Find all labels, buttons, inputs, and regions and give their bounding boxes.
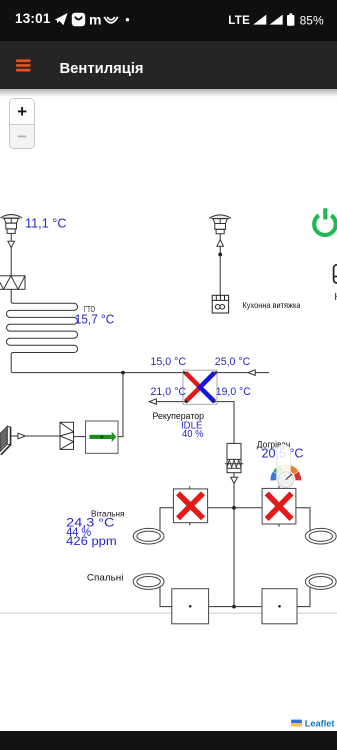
header title bbox=[60, 61, 144, 77]
svg-text:25,0 °C: 25,0 °C bbox=[215, 356, 251, 368]
damper bedroom right (open) bbox=[262, 589, 297, 624]
node row1 bbox=[232, 506, 236, 510]
leaflet attribution bbox=[289, 718, 337, 731]
wire row1 bbox=[208, 507, 263, 509]
bottom nav bar bbox=[0, 731, 337, 750]
svg-text:Leaflet: Leaflet bbox=[305, 719, 335, 729]
damper living-room right (closed) bbox=[262, 486, 296, 527]
status bar bbox=[0, 0, 337, 41]
port arrow top-right bbox=[213, 371, 217, 374]
recuperator U1 bbox=[183, 370, 217, 404]
svg-text:21,0 °C: 21,0 °C bbox=[151, 386, 187, 398]
port arrow top-left bbox=[183, 371, 187, 374]
flow arrow down bbox=[8, 241, 15, 247]
notification dot bbox=[126, 18, 129, 21]
status icons left bbox=[0, 0, 337, 41]
svg-text:15,7 °C: 15,7 °C bbox=[75, 313, 115, 327]
heater (reheat coil) bbox=[225, 443, 243, 472]
svg-text:426 ppm: 426 ppm bbox=[66, 534, 117, 548]
svg-text:15,0 °C: 15,0 °C bbox=[151, 356, 187, 368]
svg-text:Спальні: Спальні bbox=[87, 573, 124, 584]
wire exhaust out left bbox=[149, 401, 183, 403]
diffuser row2 left bbox=[133, 574, 164, 590]
node row2 bbox=[232, 605, 236, 609]
wire recuperator to heater bbox=[217, 402, 234, 444]
gauge arc orange bbox=[289, 465, 298, 474]
node kitchen bbox=[218, 253, 222, 257]
wire junction to fan bbox=[118, 373, 123, 437]
gauge arc red bbox=[294, 472, 301, 481]
wire to diffuser row2 right bbox=[297, 587, 310, 607]
exhaust fan (running) bbox=[86, 421, 119, 453]
flow arrow down (supply) bbox=[231, 477, 238, 483]
filter F1 bbox=[0, 276, 25, 290]
exhaust grille bbox=[0, 426, 11, 455]
wire grille to arrow bbox=[11, 435, 18, 437]
partial icon right edge bbox=[334, 265, 337, 283]
gauge arc yellow bbox=[281, 464, 290, 470]
swoosh icon bbox=[104, 17, 118, 23]
kitchen exhaust cowl bbox=[209, 215, 231, 234]
wire to diffuser row2 left bbox=[160, 587, 172, 607]
signal triangle 2 bbox=[270, 15, 283, 25]
wire kitchen riser bbox=[219, 234, 221, 295]
wire arrow to silencer bbox=[25, 435, 60, 437]
gauge arc green bbox=[273, 465, 282, 474]
app header bar bbox=[0, 41, 337, 89]
ground heat exchanger coil bbox=[7, 289, 184, 372]
gauge dial bbox=[278, 472, 294, 488]
wire silencer to fan bbox=[74, 436, 86, 438]
svg-text:11,1 °C: 11,1 °C bbox=[25, 217, 67, 231]
svg-text:Кухонна витяжка: Кухонна витяжка bbox=[243, 300, 301, 310]
hamburger menu icon bbox=[0, 41, 60, 88]
wire row2 bbox=[209, 606, 262, 608]
signal triangle 1 bbox=[253, 15, 266, 25]
telegram plane icon bbox=[55, 13, 68, 25]
junction node bbox=[121, 371, 125, 375]
kitchen hood bbox=[212, 295, 228, 313]
diffuser row2 right bbox=[305, 574, 336, 590]
intake cowl (outside air) bbox=[0, 214, 22, 233]
silencer bbox=[60, 422, 74, 449]
diffuser row1 right bbox=[305, 528, 336, 544]
supply trunk bbox=[233, 508, 235, 607]
power button icon bbox=[314, 208, 336, 235]
gauge arc blue bbox=[270, 472, 277, 481]
diffuser row1 left bbox=[133, 528, 164, 544]
damper living-room left (closed) bbox=[173, 486, 207, 525]
floorplan line bbox=[0, 612, 337, 614]
svg-text:19,0 °C: 19,0 °C bbox=[216, 386, 251, 398]
wire intake down bbox=[10, 233, 12, 275]
wire return air right bbox=[217, 372, 269, 374]
svg-text:40 %: 40 % bbox=[182, 429, 204, 440]
slider pill bbox=[277, 445, 291, 486]
gauge needle bbox=[286, 474, 292, 480]
battery icon bbox=[289, 13, 292, 15]
port arrow bottom-left bbox=[183, 400, 187, 403]
flow arrow up bbox=[217, 240, 224, 247]
port arrow bottom-right bbox=[213, 400, 217, 403]
damper bedroom left (open) bbox=[172, 589, 209, 624]
flow arrow right bbox=[18, 433, 25, 439]
wire to diffuser row1 right bbox=[296, 508, 310, 531]
smiley app icon bbox=[72, 13, 85, 26]
flow arrow left (return) bbox=[248, 370, 255, 376]
status time bbox=[15, 11, 51, 26]
wire to diffuser row1 left bbox=[160, 508, 173, 531]
wire heater to trunk bbox=[233, 473, 235, 508]
header shadow bbox=[0, 89, 337, 97]
flow arrow left (exhaust) bbox=[149, 399, 156, 405]
zoom control bbox=[9, 98, 34, 149]
